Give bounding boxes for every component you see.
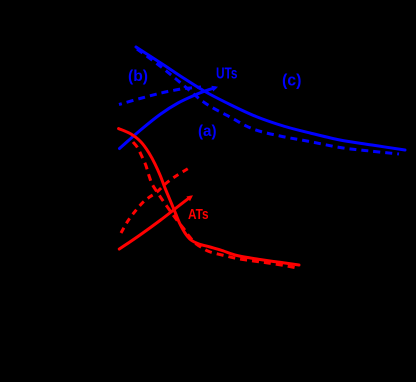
blue dashed rising line [119,87,201,105]
blue solid descending curve (upper transition, solid) [136,47,405,150]
arrowhead of red rising line [186,195,193,201]
svg-text:(b): (b) [128,68,148,85]
red solid rising line with arrow toward ATs [119,197,190,249]
svg-text:ATs: ATs [188,206,209,223]
blue solid rising line with arrow toward UTs [120,88,216,149]
red dashed descending curve [133,142,296,268]
svg-text:(a): (a) [198,123,217,140]
arrowhead of blue rising line [211,86,218,92]
svg-text:(c): (c) [282,71,302,90]
red solid descending curve (lower transition, solid) [119,129,299,265]
red dashed rising curve [121,168,189,233]
svg-text:UTs: UTs [216,66,238,83]
blue dashed descending curve [137,49,399,154]
